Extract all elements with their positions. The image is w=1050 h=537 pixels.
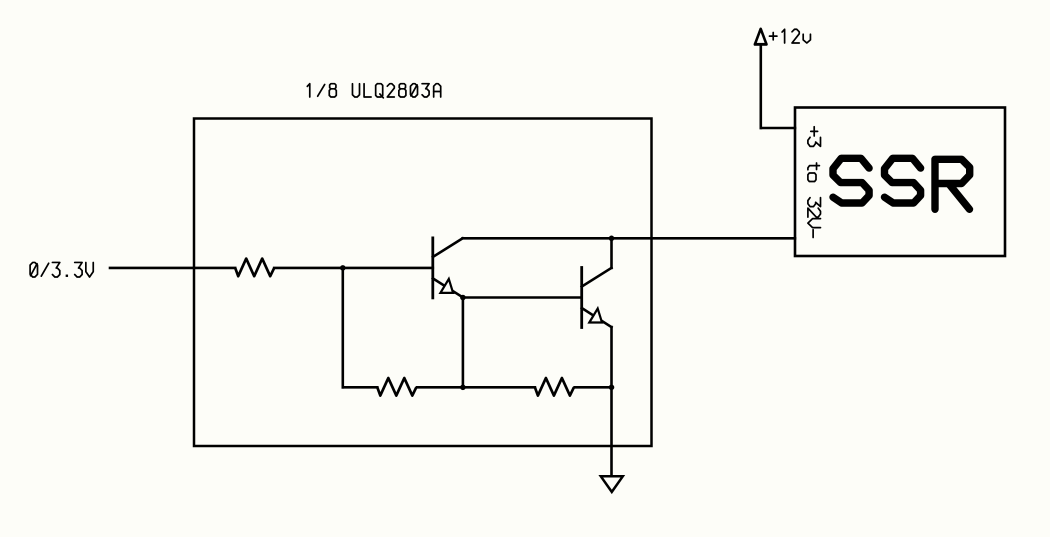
transistor Q1 emitter lead [433,278,463,297]
wire +12v vertical [759,44,762,128]
resistor R3 [535,378,574,396]
node: junction bottom center [460,385,466,391]
label "+3 to 32V-" (rotated) [808,127,821,238]
label input "0/3.3V" [30,262,93,277]
wire Q2 emitter down to ground [610,327,613,476]
node: junction bottom right [609,385,615,391]
wire Q2 collector up [610,238,613,268]
transistor Q2 base bar [580,268,583,328]
label U1 "1/8 ULQ2803A" [307,84,440,98]
wire Q1 emitter to Q2 base [463,296,582,299]
transistor Q2 collector lead [582,268,612,287]
wire bottom row left [343,386,378,389]
wire R2 to center node [417,386,535,389]
transistor Q2 emitter lead [582,308,612,327]
resistor R2 [377,378,416,396]
transistor Q1 collector lead [433,238,463,257]
SSR big text [833,158,970,209]
wire R3 to emitter node [575,386,612,389]
node: junction input/bottom branch [340,265,346,271]
wire collector bus to SSR [463,237,795,240]
wire input to R1 [110,267,235,270]
node: collector junction [609,236,615,242]
resistor R1 [235,259,274,277]
wire R1 to Q1 base [274,267,433,270]
wire center vertical down [462,298,465,388]
SSR module box [795,108,1005,257]
node: Q1 emitter to Q2 base [460,295,466,301]
wire +12v horizontal to SSR [761,127,795,130]
transistor Q1 base bar [431,238,434,298]
transistor Q2 emitter arrow [589,309,602,323]
transistor Q1 emitter arrow [440,279,453,293]
ground symbol [601,476,623,492]
label "+12v" [769,29,810,43]
+12V power symbol arrow [755,29,767,45]
IC box U1 1/8 ULQ2803A [194,119,652,447]
wire left vertical down [341,268,344,387]
